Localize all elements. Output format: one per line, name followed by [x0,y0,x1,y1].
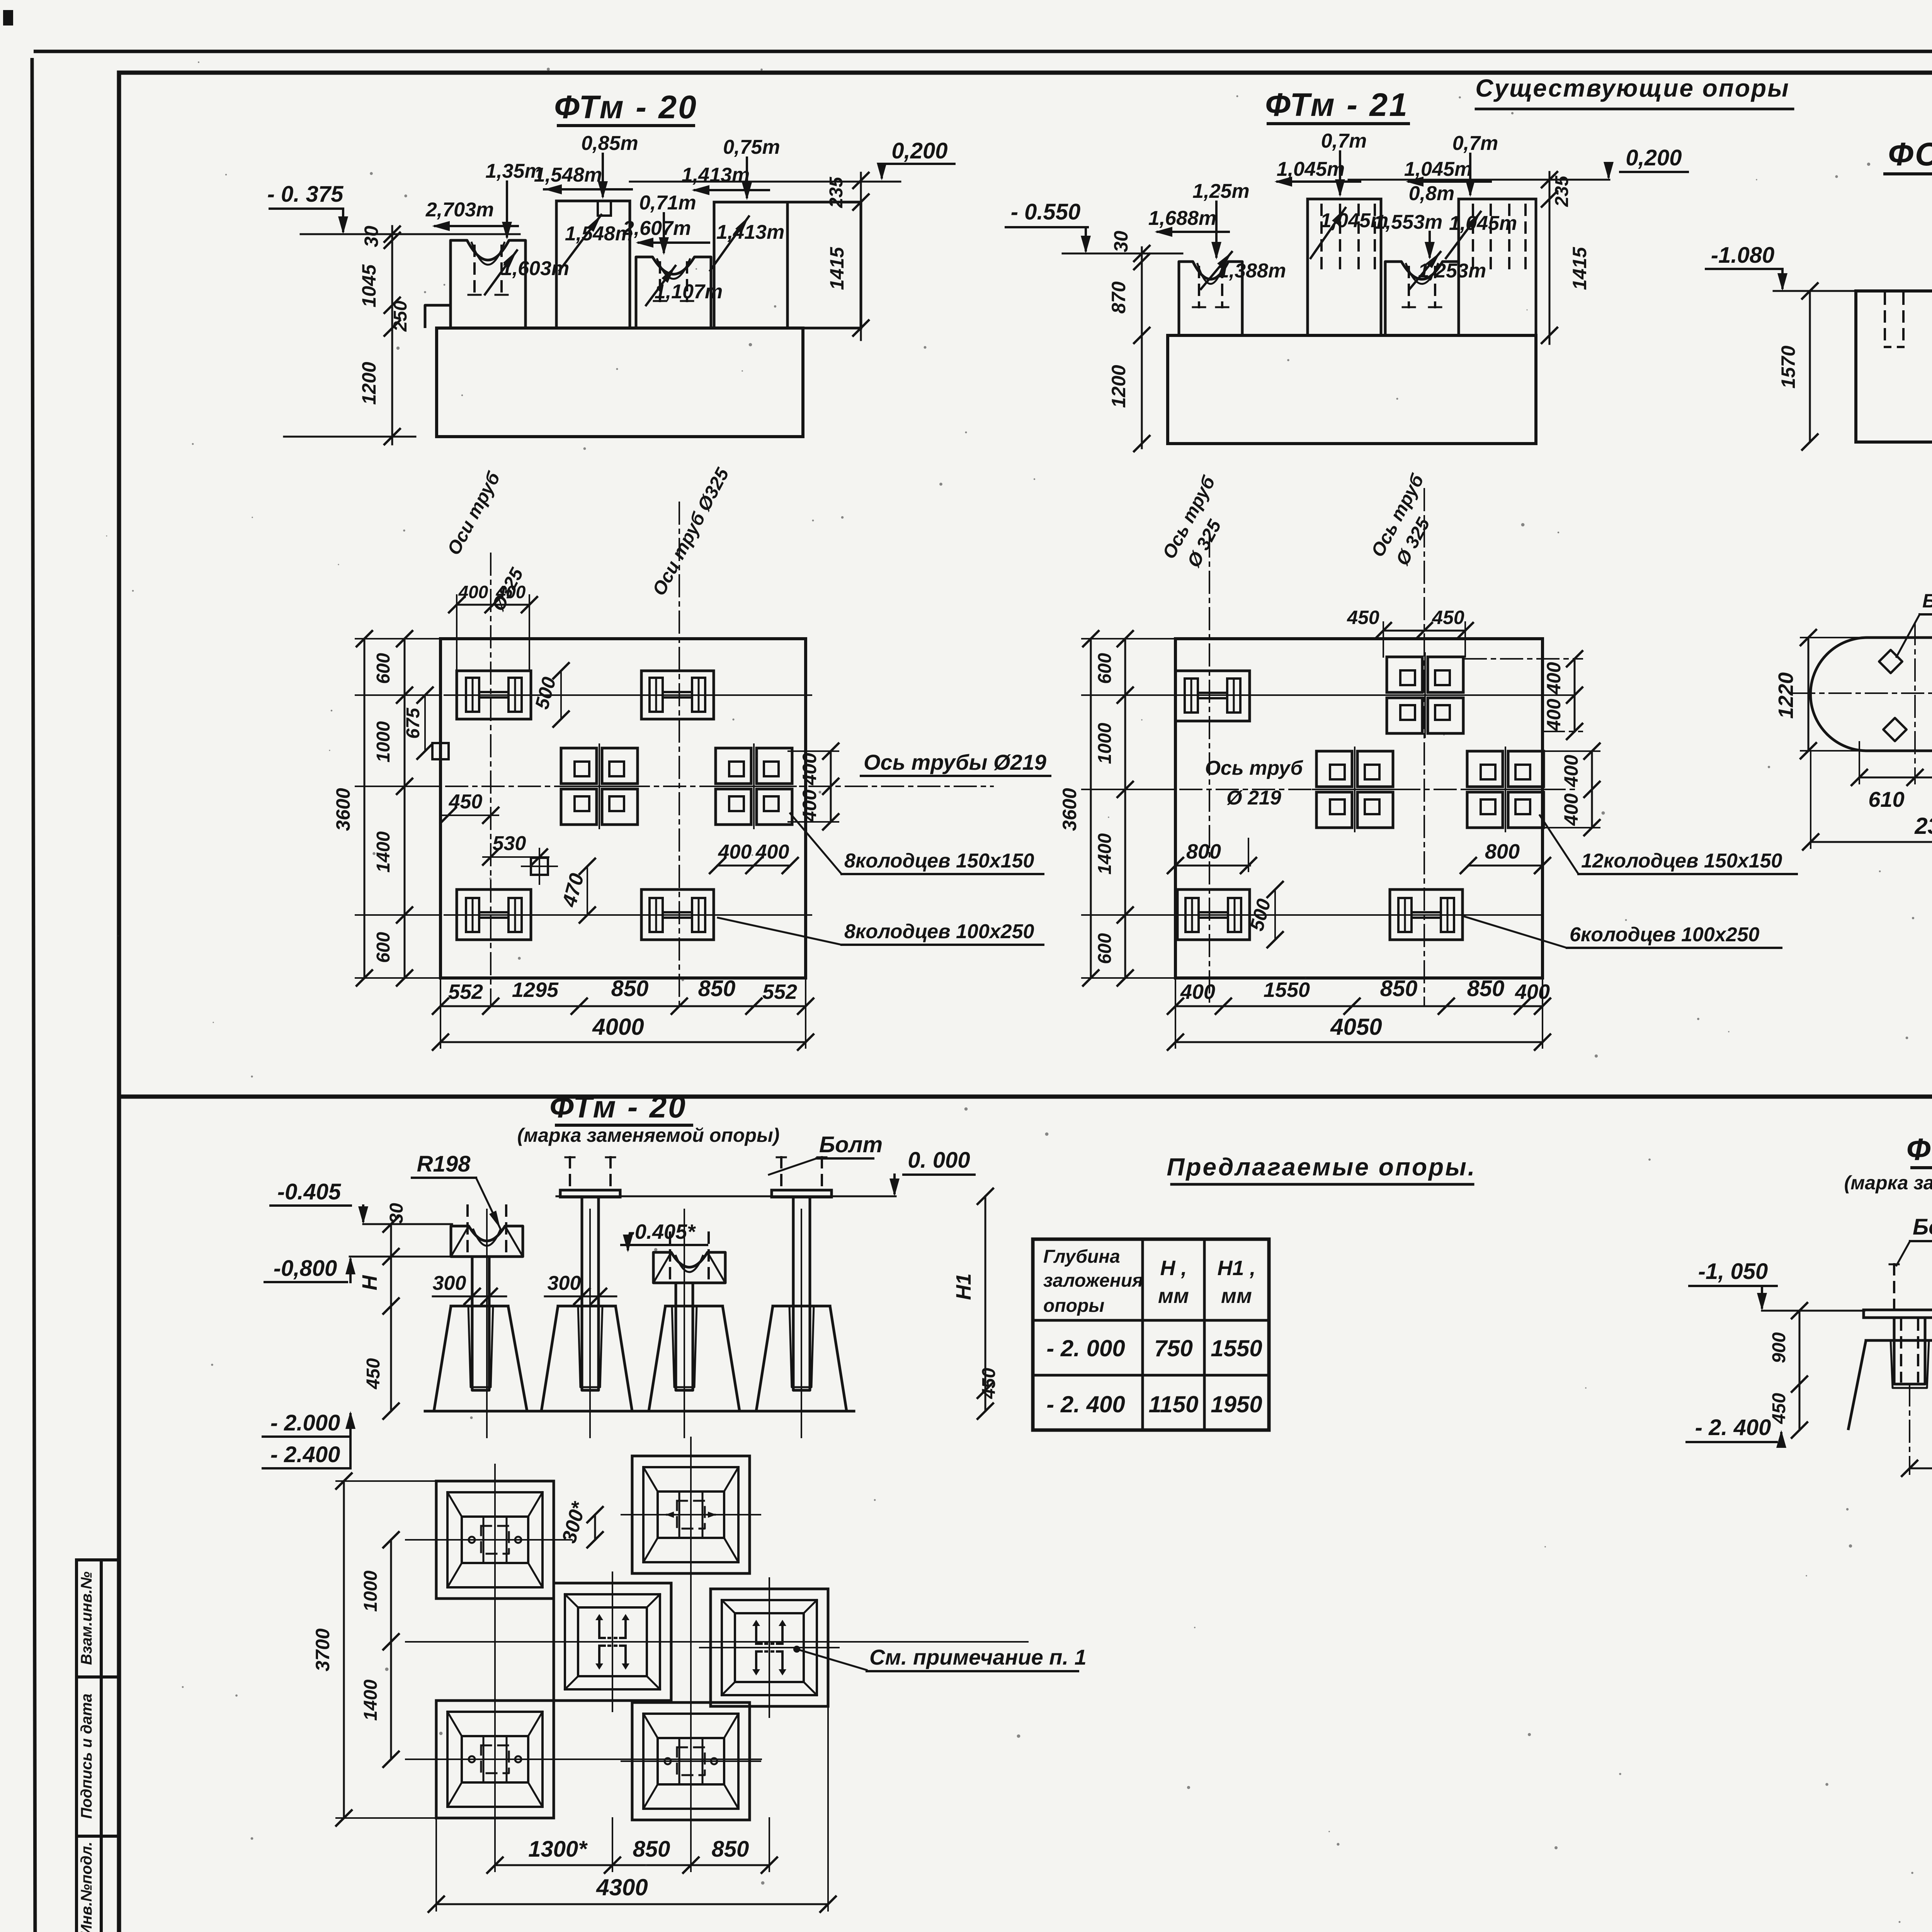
svg-text:(марка заменяемой опоры): (марка заменяемой опоры) [517,1124,780,1146]
svg-text:450: 450 [979,1368,999,1399]
svg-text:850: 850 [712,1837,749,1862]
svg-text:1,388т: 1,388т [1218,260,1286,282]
svg-text:600: 600 [1095,653,1115,684]
svg-text:300: 300 [548,1272,581,1294]
svg-text:1220: 1220 [1774,672,1798,719]
svg-text:400: 400 [496,582,526,602]
svg-text:1950: 1950 [1211,1391,1262,1417]
FTm-20 right dim line [860,173,862,340]
svg-text:0,75т: 0,75т [723,136,780,158]
svg-text:1,25т: 1,25т [1192,180,1249,202]
svg-text:235: 235 [1552,175,1572,207]
svg-text:2,703т: 2,703т [425,199,494,221]
svg-text:235: 235 [826,177,847,208]
sidebar boxes [75,1560,78,1932]
svg-text:8колодцев 100х250: 8колодцев 100х250 [844,920,1034,943]
svg-text:2,607т: 2,607т [622,217,691,240]
svg-text:1570: 1570 [1777,345,1799,388]
FTm-20 plan right dims 400 400 [830,751,832,822]
FTm-21 pedestal 1 with saddle [1179,262,1242,335]
FTm-21 plan cluster MR [1467,751,1503,787]
svg-text:-0,800: -0,800 [274,1256,337,1281]
svg-text:3700: 3700 [312,1628,333,1671]
svg-text:0,71т: 0,71т [639,192,696,214]
FTm-20 left dim line [391,226,393,444]
svg-text:Ось труб: Ось труб [1205,757,1303,779]
FTm-20 pedestal 4 [714,202,787,328]
FTm-21 left dim line [1141,247,1143,448]
FOm-1 proposed bolts [1893,1264,1895,1310]
svg-text:Предлагаемые опоры.: Предлагаемые опоры. [1167,1153,1476,1181]
svg-text:Глубина: Глубина [1043,1247,1120,1267]
svg-text:1,413т: 1,413т [716,221,784,243]
svg-text:1,045т: 1,045т [1404,158,1472,180]
svg-text:1550: 1550 [1264,978,1310,1002]
FTm-20 plan marker square 2 [531,858,548,875]
svg-text:12колодцев 150х150: 12колодцев 150х150 [1581,850,1782,872]
FTm-20 plan pipe axis 2 [679,502,680,1005]
svg-text:850: 850 [698,976,736,1001]
FTm-20 plan well rect TL [457,671,531,719]
FOm-1 plan dim 1220 [1808,638,1810,751]
svg-text:Подпись и дата: Подпись и дата [78,1694,95,1819]
FTm-21 plan left dims [1124,639,1126,978]
svg-text:450: 450 [1432,607,1464,628]
FTm-20 plan cluster left [561,748,597,784]
svg-text:1000: 1000 [373,721,394,762]
table H/H1 [1033,1239,1269,1430]
svg-text:1295: 1295 [512,978,559,1002]
FOm-1 level line [1774,290,1859,292]
svg-text:1400: 1400 [361,1679,381,1721]
svg-text:400: 400 [1180,980,1215,1003]
svg-text:- 2. 400: - 2. 400 [1046,1391,1125,1417]
FTm-21 pedestal 4 [1459,199,1536,335]
FOm-1 proposed footing A [1848,1340,1932,1430]
FTm-20 plan well rect BL [457,889,531,940]
FTm-21 datum 0.200 line [1349,179,1609,181]
svg-text:400: 400 [1543,662,1565,695]
svg-text:850: 850 [1380,976,1418,1001]
svg-text:400: 400 [1560,793,1582,826]
sheet outer border [34,50,1932,53]
pyramid top-center [632,1456,750,1573]
svg-text:См. примечание п. 1: См. примечание п. 1 [869,1645,1087,1669]
FTm-21 plan pipe axis 1 [1209,535,1210,1005]
pyramid top-left [436,1481,554,1599]
FTm-21 plan cluster ML [1316,751,1352,787]
FOm-1 plan outline [1810,638,1932,751]
FTm-21 plan row lines [1159,694,1575,696]
FTm-20 plan outline [440,639,806,978]
proposed base line [425,1410,854,1413]
FTm-21 plan well rect BC [1390,889,1463,940]
svg-text:8колодцев 150х150: 8колодцев 150х150 [844,850,1034,872]
svg-text:- 0. 375: - 0. 375 [267,182,344,207]
FTm-20 datum 0.200 line [630,181,900,183]
pyramid bottom-left [436,1701,554,1818]
FTm-20 plan cluster right [716,748,751,784]
svg-text:0. 000: 0. 000 [908,1148,970,1173]
svg-text:1200: 1200 [1108,365,1129,408]
proposed footing 1 [434,1306,527,1411]
proposed footing 2 [541,1306,632,1411]
svg-text:1,045т: 1,045т [1277,158,1345,180]
FTm-21 plan right dims upper 400 400 [1574,659,1576,731]
svg-text:900: 900 [1769,1332,1789,1363]
proposed footing 4 [756,1306,847,1411]
svg-text:опоры: опоры [1043,1296,1104,1316]
FTm-20 plan bottom chain [440,1005,806,1007]
svg-text:-0.405*: -0.405* [628,1220,696,1243]
FTm-21 plan right dims lower 400 400 [1591,751,1593,828]
proposed left dim line [390,1224,392,1411]
svg-text:Существующие опоры: Существующие опоры [1475,74,1789,102]
svg-text:Н ,: Н , [1160,1257,1187,1280]
svg-text:850: 850 [633,1837,670,1862]
proposed saddle cap 1 [451,1226,523,1257]
svg-text:Н: Н [358,1275,381,1291]
svg-text:Ось трубы Ø219: Ось трубы Ø219 [864,750,1046,774]
FOm-1 proposed plate [1864,1310,1932,1318]
FTm-20 plan well rect TR [641,671,714,719]
proposed post axes [486,1209,488,1437]
svg-text:1300*: 1300* [528,1837,588,1862]
svg-text:- 2. 000: - 2. 000 [1046,1335,1125,1361]
FTm-21 pedestal 3 with saddle [1385,262,1459,335]
FOm-1 block [1856,291,1932,442]
proposed saddle cap 3 [653,1252,725,1283]
proposed right dim line [985,1196,986,1411]
FTm-21 plan bottom chain [1175,1005,1543,1007]
FOm-1 proposed dims [1799,1311,1801,1430]
svg-text:300: 300 [433,1272,466,1294]
FOm-1 plan dim 2320 [1811,841,1932,843]
svg-text:- 2.400: - 2.400 [270,1442,340,1467]
FTm-21 base slab [1168,335,1536,444]
svg-text:Болт: Болт [1913,1214,1932,1240]
svg-text:450: 450 [1347,607,1379,628]
svg-text:552: 552 [762,980,797,1003]
FTm-21 plan top dims 450 450 [1383,630,1465,632]
svg-text:750: 750 [1154,1335,1193,1361]
FTm-21 plan well rect BL [1177,889,1250,940]
svg-text:250: 250 [390,301,411,332]
svg-text:-1, 050: -1, 050 [1698,1259,1768,1284]
plan left dims [390,1540,392,1759]
svg-text:1200: 1200 [358,362,380,405]
svg-text:400: 400 [718,841,752,863]
svg-text:Инв.№подл.: Инв.№подл. [78,1842,95,1932]
svg-text:1000: 1000 [361,1570,381,1612]
svg-text:30: 30 [386,1203,407,1224]
proposed footing 3 [649,1306,740,1411]
svg-text:30: 30 [1110,231,1132,252]
FTm-20 plan top dims 400 400 [457,604,529,606]
pyramid long centerlines [406,1539,572,1541]
svg-text:0,200: 0,200 [891,138,947,163]
svg-text:800: 800 [1485,840,1520,863]
svg-text:610: 610 [1868,787,1904,811]
proposed post 4 with flange [772,1190,832,1197]
FTm-20 plan pipe axis 1 [490,553,492,1005]
svg-text:1,413т: 1,413т [682,164,750,186]
FTm-20 pedestal 2 [556,201,630,328]
FTm-20 base slab [437,328,803,437]
svg-text:600: 600 [1095,933,1115,964]
svg-text:ФТм - 20: ФТм - 20 [549,1090,687,1124]
proposed post 3 [676,1283,693,1390]
svg-text:1415: 1415 [1569,247,1590,290]
svg-text:ФТм - 21: ФТм - 21 [1265,87,1409,123]
svg-text:1,548т: 1,548т [534,164,602,186]
svg-text:- 2. 400: - 2. 400 [1695,1415,1771,1440]
svg-text:заложения: заложения [1043,1270,1143,1291]
FOm-1 proposed post A [1894,1318,1925,1384]
svg-text:1,553т: 1,553т [1374,211,1442,233]
FTm-20 plan horizontal centerline [410,786,993,787]
svg-text:1400: 1400 [373,831,394,872]
svg-text:600: 600 [373,653,394,684]
svg-text:0,7т: 0,7т [1321,130,1367,152]
plan dim 4300 [436,1903,828,1905]
FTm-20 pedestal 4 right part [787,202,861,328]
svg-text:400: 400 [1515,980,1550,1003]
FTm-21 plan well rect TL [1175,671,1250,721]
svg-text:R198: R198 [417,1151,471,1177]
svg-text:ФТм - 20: ФТм - 20 [554,89,698,125]
svg-text:450: 450 [1769,1393,1789,1424]
svg-text:- 0.550: - 0.550 [1011,199,1081,224]
FTm-21 right dim line [1549,172,1551,344]
plan dim 3700 [343,1481,345,1818]
svg-text:4050: 4050 [1330,1014,1382,1040]
svg-text:400: 400 [799,789,820,822]
svg-text:1400: 1400 [1095,833,1115,874]
svg-text:-0.405: -0.405 [277,1179,341,1204]
svg-text:Н1: Н1 [952,1273,975,1300]
pyramid bottom-center [632,1702,750,1820]
FTm-20 plan row lines [444,694,811,696]
svg-text:0,200: 0,200 [1626,145,1682,170]
FTm-21 plan pipe axis 2 [1423,489,1425,1005]
FTm-20 plan well rect BR [641,889,714,940]
pyramid mid-center [554,1583,671,1701]
svg-text:675: 675 [403,707,423,739]
svg-text:ФОм - 1: ФОм - 1 [1888,136,1932,172]
FTm-21 plan dim 4050 [1175,1041,1543,1043]
FOm-1 plan diamonds [1879,650,1902,673]
svg-text:850: 850 [1467,976,1505,1001]
dim 1300 [1910,1468,1932,1469]
FTm-21 plan horizontal centerline [1144,789,1577,790]
proposed post 2 with flange [560,1190,620,1197]
svg-text:1,045т: 1,045т [1449,212,1517,235]
svg-text:Ø 219: Ø 219 [1226,787,1281,809]
svg-text:3600: 3600 [332,788,354,831]
svg-text:мм: мм [1221,1284,1252,1308]
FOm-1 plan centerlines [1793,692,1932,694]
FTm-21 pedestal 2 [1308,199,1381,335]
svg-text:870: 870 [1108,281,1129,314]
svg-text:800: 800 [1186,840,1221,863]
svg-text:1550: 1550 [1211,1335,1262,1361]
svg-text:4300: 4300 [596,1874,648,1900]
svg-text:Б колодцев 150х150: Б колодцев 150х150 [1922,590,1932,612]
pyramid mid-right [711,1589,828,1706]
svg-text:1,107т: 1,107т [655,281,723,303]
FTm-20 plan dim 4000 [440,1041,806,1043]
svg-text:ФОм - 1: ФОм - 1 [1906,1132,1932,1167]
svg-text:400: 400 [799,753,820,786]
top-left scan blob [3,10,13,26]
svg-text:- 2.000: - 2.000 [270,1410,340,1435]
svg-text:552: 552 [448,980,483,1003]
svg-text:1000: 1000 [1095,723,1115,764]
svg-text:600: 600 [373,932,394,963]
FTm-20 plan left dims [404,639,406,978]
svg-text:400: 400 [755,841,789,863]
FOm-1 dim 1570 [1809,291,1811,442]
svg-text:-1.080: -1.080 [1711,243,1774,268]
svg-text:(марка заменяемой опоры): (марка заменяемой опоры) [1844,1172,1932,1194]
svg-text:1415: 1415 [826,247,848,290]
section divider line [119,1095,1932,1099]
FTm-20 left step [425,305,451,328]
svg-text:0,8т: 0,8т [1409,182,1455,205]
svg-text:1,688т: 1,688т [1148,207,1216,230]
FTm-20 plan marker square on edge [432,743,449,759]
FTm-21 plan outline [1175,639,1543,978]
svg-text:400: 400 [458,582,488,602]
FTm-20 pedestal 3 with saddle [636,257,711,328]
svg-text:6колодцев 100х250: 6колодцев 100х250 [1570,923,1760,946]
svg-text:Взам.инв.№: Взам.инв.№ [78,1571,95,1665]
FTm-20 plan bottom dims under cluster [718,865,790,867]
plan bottom dims [495,1864,769,1866]
svg-text:30: 30 [361,226,382,247]
FOm-1 plan bottom dims [1859,777,1932,779]
svg-text:1045: 1045 [358,264,380,307]
svg-text:0,7т: 0,7т [1452,132,1498,155]
svg-text:1150: 1150 [1148,1391,1198,1417]
FOm-1 bolt pairs [1884,294,1886,347]
svg-text:400: 400 [1560,755,1582,787]
FTm-20 pedestal 1 with saddle [451,240,526,328]
svg-text:Н1 ,: Н1 , [1217,1257,1255,1280]
svg-text:400: 400 [1543,699,1565,731]
svg-text:450: 450 [363,1358,384,1389]
svg-text:0,85т: 0,85т [581,132,638,155]
FTm-21 plan cluster TR [1387,657,1422,692]
svg-text:мм: мм [1158,1284,1189,1308]
svg-text:2320: 2320 [1914,813,1932,839]
proposed post 1 [472,1257,489,1390]
svg-text:4000: 4000 [592,1014,644,1040]
svg-text:850: 850 [611,976,649,1001]
svg-text:3600: 3600 [1059,788,1080,831]
svg-text:Болт: Болт [819,1132,883,1157]
